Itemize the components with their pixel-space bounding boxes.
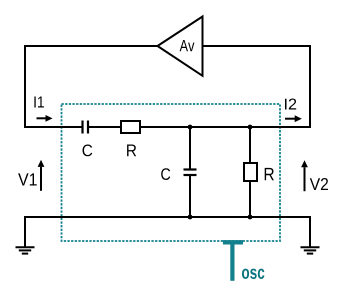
arrow V2 (voltage direction) [301,160,308,191]
ground right [301,247,320,253]
op-amp U1 Av triangle [158,17,203,76]
dashed feedback network box [62,104,281,241]
wire shunt R lower lead [249,181,251,217]
wire left rail vertical [24,46,26,127]
label osc [242,269,265,279]
label Av [180,40,195,51]
osc probe tick [223,242,243,280]
label V1 [18,173,37,185]
arrow V1 (voltage direction) [38,160,45,191]
wire main node row: left rail to series capacitor [25,126,82,128]
capacitor C (shunt) plates [184,170,197,176]
label I1 [34,97,44,108]
resistor R (shunt) [244,163,257,181]
wire shunt R upper lead [249,127,251,163]
wire shunt C lower lead [189,176,191,217]
node junction top-right (shunt R / main row) [248,125,253,130]
ground left [16,247,35,253]
label R (series) [127,145,136,157]
wire series capacitor to series resistor [89,126,121,128]
label I2 [285,99,296,110]
wire top-left horizontal (output of Av to left rail) [25,45,158,47]
node junction top-left (shunt C / main row) [188,125,193,130]
wire right ground drop [309,217,311,247]
node junction bottom-left (shunt C / bottom rail) [188,215,193,220]
wire top-right horizontal (right rail to Av input) [203,45,311,47]
arrow I1 (current direction) [37,115,53,122]
wire series resistor to right rail [140,126,310,128]
wire bottom rail [25,216,310,218]
arrow I2 (current direction) [285,115,302,122]
wire right rail vertical [309,46,311,127]
resistor R (series) [121,121,140,133]
wire shunt C upper lead [189,127,191,169]
label C (shunt) [161,168,170,180]
wire left ground drop [24,217,26,247]
label R (shunt) [265,168,274,180]
node junction bottom-right (shunt R / bottom rail) [248,215,253,220]
capacitor C (series) plates [83,121,89,134]
label V2 [310,178,328,190]
label C (series) [83,145,93,157]
